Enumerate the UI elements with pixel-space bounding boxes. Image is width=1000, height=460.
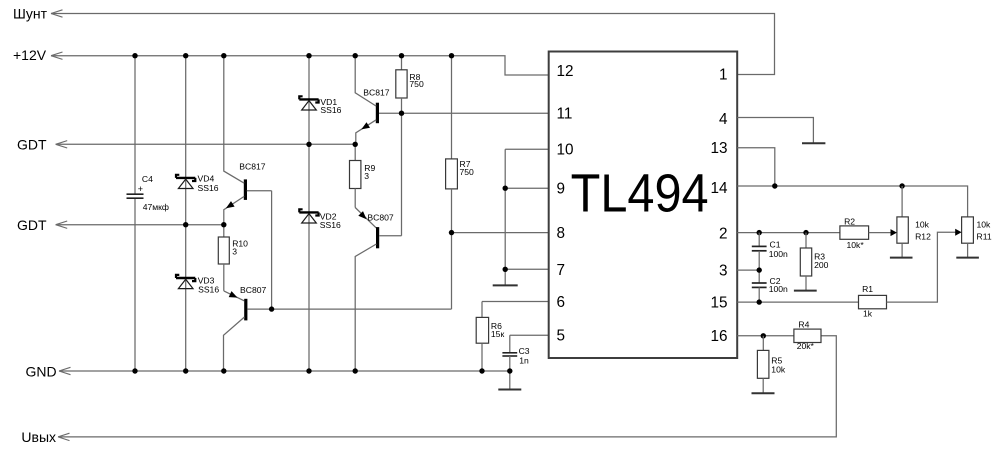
svg-text:Uвых: Uвых xyxy=(21,429,56,445)
svg-text:R1: R1 xyxy=(862,284,873,294)
svg-text:R12: R12 xyxy=(915,232,931,242)
svg-text:3: 3 xyxy=(232,247,237,257)
svg-text:BC807: BC807 xyxy=(240,285,266,295)
svg-text:750: 750 xyxy=(409,79,424,89)
svg-text:SS16: SS16 xyxy=(320,220,341,230)
svg-text:1n: 1n xyxy=(519,356,529,366)
svg-text:TL494: TL494 xyxy=(571,164,709,224)
svg-text:15: 15 xyxy=(710,295,727,312)
svg-text:200: 200 xyxy=(814,260,829,270)
svg-text:R2: R2 xyxy=(844,217,855,227)
svg-text:1k: 1k xyxy=(863,309,873,319)
svg-text:13: 13 xyxy=(710,140,727,157)
svg-text:10: 10 xyxy=(557,141,574,158)
svg-text:9: 9 xyxy=(557,181,566,198)
svg-text:750: 750 xyxy=(460,167,475,177)
svg-text:4: 4 xyxy=(719,111,728,128)
svg-text:8: 8 xyxy=(557,225,566,242)
svg-text:+: + xyxy=(138,184,143,194)
svg-text:10k*: 10k* xyxy=(847,240,865,250)
svg-text:3: 3 xyxy=(719,263,728,280)
svg-text:+12V: +12V xyxy=(13,47,47,63)
svg-text:6: 6 xyxy=(557,294,566,311)
svg-text:Шунт: Шунт xyxy=(13,5,48,21)
svg-text:5: 5 xyxy=(557,327,566,344)
svg-text:16: 16 xyxy=(710,328,727,345)
svg-text:SS16: SS16 xyxy=(198,183,219,193)
svg-text:14: 14 xyxy=(710,180,728,197)
svg-text:12: 12 xyxy=(557,63,574,80)
svg-text:2: 2 xyxy=(719,225,728,242)
svg-text:100n: 100n xyxy=(769,284,788,294)
svg-text:SS16: SS16 xyxy=(320,105,341,115)
svg-text:GDT: GDT xyxy=(17,217,47,233)
svg-text:10k: 10k xyxy=(977,220,992,230)
svg-text:10k: 10k xyxy=(771,364,786,374)
svg-text:GDT: GDT xyxy=(17,137,47,153)
svg-text:BC807: BC807 xyxy=(367,213,393,223)
svg-text:3: 3 xyxy=(364,171,369,181)
svg-text:1: 1 xyxy=(719,67,728,84)
svg-text:7: 7 xyxy=(557,262,566,279)
svg-text:11: 11 xyxy=(557,106,573,123)
svg-text:100n: 100n xyxy=(769,249,788,259)
svg-text:VD4: VD4 xyxy=(198,174,215,184)
svg-text:C4: C4 xyxy=(142,174,153,184)
svg-text:C3: C3 xyxy=(519,346,530,356)
svg-text:15к: 15к xyxy=(491,329,505,339)
svg-text:BC817: BC817 xyxy=(363,87,389,97)
svg-text:47мкф: 47мкф xyxy=(143,202,169,212)
svg-text:GND: GND xyxy=(26,364,57,380)
svg-text:SS16: SS16 xyxy=(198,285,219,295)
svg-text:20k*: 20k* xyxy=(797,341,815,351)
svg-text:R11: R11 xyxy=(977,232,992,242)
svg-text:10k: 10k xyxy=(915,220,930,230)
svg-text:R4: R4 xyxy=(798,319,809,329)
svg-text:BC817: BC817 xyxy=(239,162,265,172)
